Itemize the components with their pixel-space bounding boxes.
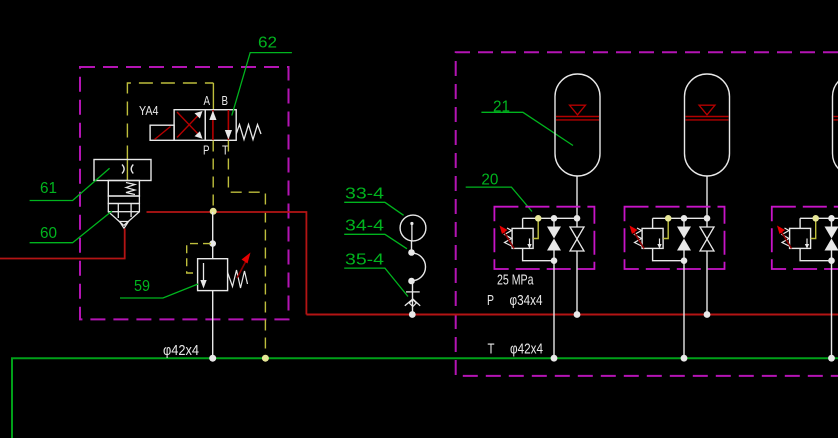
svg-text:P: P (203, 143, 210, 158)
pressure line red from filter to P rail (147, 212, 307, 315)
line relief 59 to tank (212, 291, 214, 358)
svg-text:φ42x4: φ42x4 (163, 342, 199, 359)
leader 62 (232, 53, 292, 116)
leader 21 (481, 112, 573, 145)
svg-text:φ34x4: φ34x4 (510, 292, 543, 309)
enclosure box left (dashed magenta) (80, 67, 289, 319)
shutoff valve filled 1 (547, 218, 561, 260)
shutoff valve filled 3 (825, 218, 838, 260)
accumulator capsule 3 (833, 74, 838, 176)
svg-text:B: B (222, 93, 229, 108)
svg-text:62: 62 (258, 35, 277, 52)
junction dot yellow 2 (665, 215, 672, 222)
funnel (108, 212, 139, 229)
junction dot 2c (681, 257, 688, 264)
lower section with cells (108, 204, 139, 219)
junction dot main line / tank (209, 355, 216, 362)
junction dot 3a (828, 215, 835, 222)
check valve outline 2 (700, 227, 714, 251)
svg-text:25 MPa: 25 MPa (497, 272, 534, 289)
junction dot 1a (551, 215, 558, 222)
relief adjust arrow 1 (500, 226, 515, 249)
line accumulator 2 to manifold (706, 176, 708, 227)
junction dot drain / tank (262, 355, 269, 362)
port P pilot line yellow dashed down to red junction (212, 141, 214, 209)
svg-text:A: A (204, 93, 211, 108)
leader 59 (120, 284, 198, 298)
svg-text:59: 59 (134, 278, 150, 295)
junction dot yellow 1 (535, 215, 542, 222)
leader 35-4 (344, 268, 408, 296)
line accumulator 1 to manifold (576, 176, 578, 227)
pilot yellow 2 (663, 220, 668, 239)
junction dot hose top (408, 249, 415, 256)
relief valve block 2 (642, 228, 663, 248)
manifold line 3 (800, 218, 838, 228)
accumulator capsule 2 (685, 74, 730, 176)
safety block box 1 (magenta dashed) (494, 207, 594, 269)
svg-text:35-4: 35-4 (345, 252, 384, 269)
relief spring 3 (782, 228, 789, 246)
junction dot 1c (551, 257, 558, 264)
junction dot P 2 (704, 311, 711, 318)
directional valve U62 crossed position square (174, 110, 205, 141)
svg-text:φ42x4: φ42x4 (510, 341, 543, 358)
shutoff valve filled 2 (677, 218, 691, 260)
leader 60 (30, 211, 112, 243)
hose arc 34-4 (412, 253, 426, 281)
relief adjust arrow 3 (777, 226, 792, 249)
main line P to relief valve 59 (212, 212, 214, 259)
safety block box 3 (magenta dashed) (772, 207, 838, 269)
drain link 1 (523, 248, 554, 260)
junction dot pilot takeoff (209, 240, 216, 247)
relief adjust arrow 2 (630, 226, 645, 249)
junction dot P pilot / red line (210, 208, 217, 215)
line to P rail 1 (576, 251, 578, 314)
pressure rail P red (306, 314, 838, 316)
check valve outline 1 (570, 227, 584, 251)
junction dot hose bottom (408, 278, 415, 285)
pilot line yellow dashed from filter to valve port A (127, 83, 213, 181)
line to P rail 2 (706, 251, 708, 314)
coupling 35-4 (405, 281, 420, 313)
relief valve 59 body (198, 259, 228, 291)
relief valve 59 pilot yellow (187, 244, 211, 273)
gas precharge symbol 2 (686, 105, 729, 120)
drain link 2 (653, 248, 684, 260)
junction dot tank 2 (681, 355, 688, 362)
junction dot yellow 3 (812, 215, 819, 222)
junction dot 2a (681, 215, 688, 222)
svg-text:61: 61 (40, 180, 57, 197)
relief spring 2 (635, 228, 642, 246)
gauge circle 33-4 (400, 215, 426, 241)
pilot yellow 3 (811, 220, 816, 239)
svg-text:33-4: 33-4 (345, 185, 384, 202)
svg-text:60: 60 (40, 225, 57, 242)
enclosure box right (dashed magenta) (456, 52, 838, 376)
spring chamber 60 (108, 181, 139, 197)
leader 61 (30, 168, 110, 200)
junction dot tank 3 (828, 355, 835, 362)
leader 34-4 (344, 234, 407, 249)
relief valve 59 adjust arrow (237, 253, 251, 279)
body section (108, 196, 139, 204)
manifold line 2 (653, 218, 707, 228)
junction dot 1b (574, 215, 581, 222)
relief spring 1 (505, 228, 512, 246)
directional valve U62 parallel position square (205, 110, 236, 141)
junction dot 3c (828, 257, 835, 264)
gas precharge symbol (556, 105, 599, 120)
port T drain yellow dashed down to tank line (228, 141, 265, 358)
junction dot tank 1 (551, 355, 558, 362)
svg-text:20: 20 (481, 171, 498, 188)
accumulator 21 capsule (555, 74, 600, 176)
safety block box 2 (magenta dashed) (625, 207, 725, 269)
solenoid YA4 box (150, 125, 174, 140)
manifold line 1 (523, 218, 577, 228)
line to tank 3 (831, 261, 833, 358)
junction dot P 1 (574, 311, 581, 318)
svg-text:T: T (488, 341, 495, 358)
valve spring (236, 125, 261, 140)
drain line red from funnel (0, 229, 125, 259)
pilot yellow 1 (533, 220, 538, 239)
junction dot coupling / P rail (409, 311, 416, 318)
line to tank 2 (683, 261, 685, 358)
line gauge to hose (411, 241, 413, 253)
relief valve block 3 (790, 228, 811, 248)
gas precharge symbol 3 (834, 117, 838, 120)
leader 33-4 (344, 202, 403, 215)
line to tank 1 (553, 261, 555, 358)
orifice symbol (122, 165, 133, 174)
leader 20 (466, 187, 532, 211)
drain link 3 (800, 248, 831, 260)
tank return line green (12, 358, 838, 438)
svg-text:T: T (222, 143, 229, 158)
relief valve 59 spring (228, 270, 248, 288)
svg-text:P: P (487, 292, 494, 309)
junction dot 2b (704, 215, 711, 222)
svg-text:YA4: YA4 (139, 103, 159, 118)
svg-text:34-4: 34-4 (345, 217, 384, 234)
filter unit body 61 (94, 160, 151, 181)
relief valve block 1 (512, 228, 533, 248)
